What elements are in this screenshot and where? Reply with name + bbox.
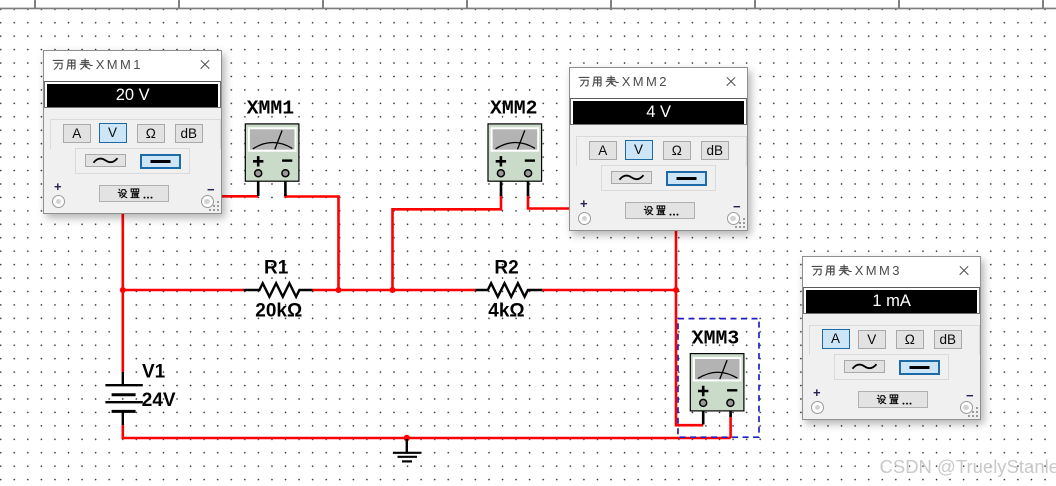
svg-text:R2: R2: [494, 257, 518, 278]
svg-text:XMM2: XMM2: [490, 98, 537, 120]
svg-text:4kΩ: 4kΩ: [488, 301, 524, 322]
svg-text:XMM1: XMM1: [247, 98, 295, 120]
svg-text:XMM3: XMM3: [692, 328, 739, 350]
svg-text:R1: R1: [264, 257, 289, 278]
svg-text:20kΩ: 20kΩ: [255, 301, 302, 322]
svg-text:V1: V1: [142, 362, 166, 383]
svg-text:24V: 24V: [142, 390, 176, 411]
